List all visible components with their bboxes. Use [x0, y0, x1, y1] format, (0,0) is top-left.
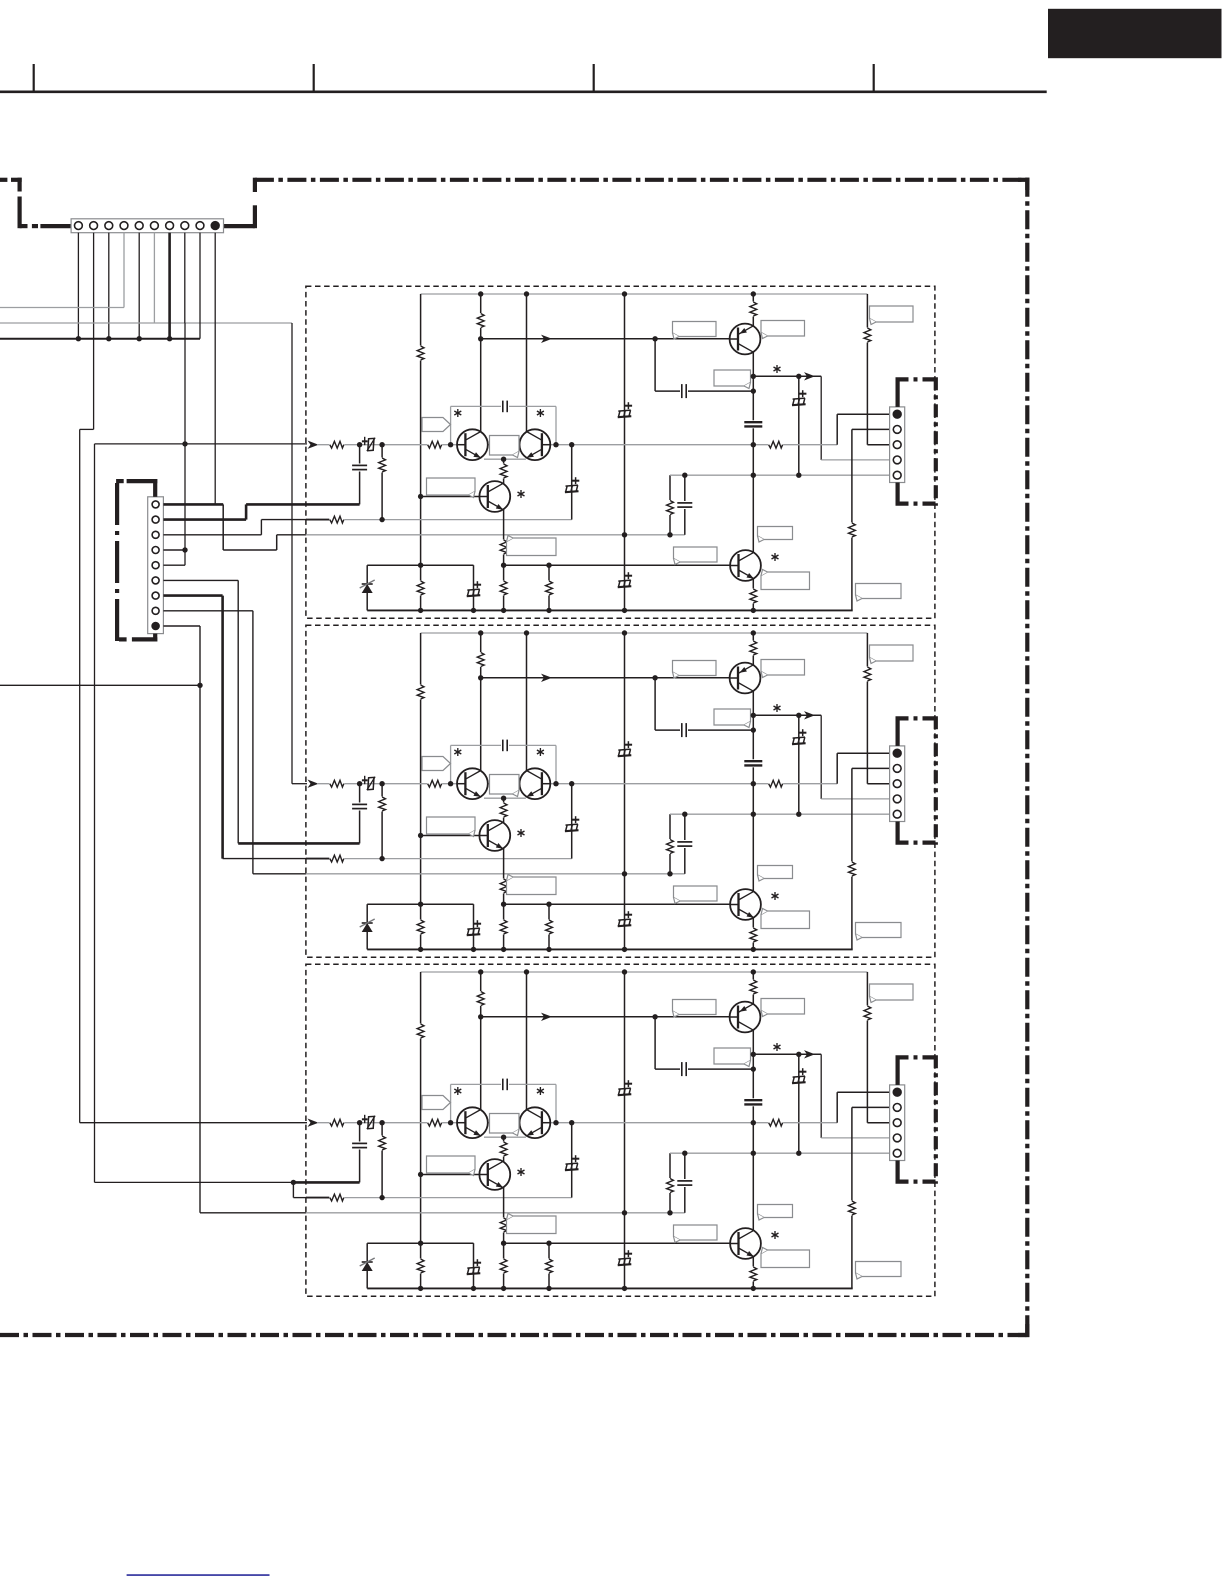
pin 10 CN-in	[211, 222, 219, 230]
pin 2 CN-L	[152, 516, 159, 523]
resistor R4A	[749, 302, 758, 317]
resistor R10B	[329, 854, 344, 863]
transistor Q5A	[730, 324, 761, 355]
connector CN-outC body	[890, 1085, 905, 1161]
wire channel C input	[80, 1122, 307, 1124]
wire bias line C	[481, 1016, 732, 1018]
pin 9 CN-in	[196, 222, 204, 230]
resistor R2A	[416, 581, 425, 596]
transistor Q3B	[479, 820, 510, 851]
pin 3 CN-outA	[893, 441, 901, 449]
border left jog	[18, 178, 22, 192]
resistor R5C	[863, 1006, 872, 1021]
pin 3 CN-L	[152, 531, 159, 538]
wire Q3 emitter C	[503, 1182, 505, 1243]
pin 1 CN-outB	[893, 749, 901, 757]
pin 7 CN-L	[152, 592, 159, 599]
resistor R16C	[749, 1267, 758, 1282]
tick 4	[873, 64, 875, 92]
wire pin2 link B	[851, 768, 853, 949]
asterisk pair left B	[457, 748, 459, 756]
resistor R17B	[847, 862, 856, 877]
pin 1 CN-L	[152, 501, 159, 508]
wire emitter bracket B	[484, 797, 526, 799]
pin 1 CN-in	[75, 222, 83, 230]
trimmer TC3A	[792, 404, 806, 405]
wire zener rail B	[367, 903, 473, 905]
wire base branch B	[654, 678, 656, 730]
asterisk pair right A	[539, 409, 541, 417]
resistor R14B	[499, 920, 508, 935]
resistor R6B	[329, 779, 344, 788]
wire channel B input	[292, 783, 307, 785]
label box L4A	[714, 370, 751, 386]
wire Q1B collector	[480, 633, 482, 772]
wire row2 stub C	[306, 1197, 330, 1199]
resistor R15A	[548, 565, 550, 610]
wire channel B feed	[291, 323, 293, 784]
resistor R16B	[749, 928, 758, 943]
transistor Q2C	[520, 1107, 551, 1138]
resistor R6C	[329, 1118, 344, 1127]
resistor R14C	[499, 1259, 508, 1274]
resistor R7C	[427, 1118, 442, 1127]
wire row2 riser A	[571, 445, 573, 520]
capacitor C5B	[501, 739, 509, 752]
wire Q4 emitter B	[752, 917, 754, 949]
label box L10C	[674, 1225, 718, 1240]
wire trimmer branch A	[798, 376, 800, 475]
wire main row B	[317, 783, 837, 785]
wire main row C	[317, 1122, 837, 1124]
label box L12C	[856, 1262, 902, 1277]
wire Q3 collector A	[503, 459, 505, 489]
transistor Q5C	[730, 1002, 761, 1033]
label box L10A	[674, 547, 718, 562]
trimmer TC1A	[618, 416, 632, 417]
pin 6 CN-L	[152, 577, 159, 584]
pin 2 CN-outC	[893, 1104, 901, 1112]
wire CN-L pin5	[163, 564, 185, 566]
wire aux bus	[0, 684, 200, 686]
capacitor C3B	[352, 803, 368, 811]
wire input res branch C	[381, 1123, 383, 1198]
wire row2 A feed	[261, 519, 307, 521]
wire pin4 link C	[820, 1054, 822, 1138]
label box L9C	[758, 1205, 793, 1218]
wire emitter bracket A	[484, 458, 526, 460]
wire pin1 link C	[836, 1092, 838, 1123]
pin 5 CN-outA	[893, 471, 901, 479]
label box L4B	[714, 709, 751, 725]
resistor R3B	[476, 652, 485, 667]
wire Q3 collector C	[503, 1137, 505, 1167]
wire center vertical A	[624, 294, 626, 610]
label box L1C	[673, 1000, 717, 1015]
resistor R8C	[768, 1118, 783, 1127]
zener D1B	[366, 904, 368, 949]
border right	[1025, 178, 1029, 1335]
resistor R12C	[499, 1142, 508, 1157]
wire top rail C	[421, 971, 868, 973]
resistor R17C	[847, 1201, 856, 1216]
wire driver vertical B	[752, 633, 754, 892]
wire row2 riser C	[571, 1123, 573, 1198]
arrow bias C	[541, 1013, 552, 1021]
wire bus 323	[0, 322, 292, 324]
resistor R13B	[499, 879, 508, 894]
trimmer TC4B	[368, 777, 374, 789]
wire CN-in pin5	[138, 233, 140, 339]
resistor R17A	[847, 523, 856, 538]
wire CN-in pin2	[93, 233, 95, 430]
trimmer TC6A	[473, 565, 475, 610]
wire row2 B feed	[223, 858, 307, 860]
wire pin5 row A	[670, 474, 893, 476]
label box L2A	[761, 321, 805, 337]
wire Q1C collector	[480, 972, 482, 1111]
wire row2 B	[330, 858, 572, 860]
label box L9B	[758, 866, 793, 879]
wire pair bracket B	[450, 745, 452, 783]
label box L11B	[761, 911, 810, 929]
resistor R9C	[378, 1136, 387, 1151]
wire channel A input	[95, 443, 308, 445]
capacitor C2A	[744, 420, 763, 428]
tick 3	[593, 64, 595, 92]
pin 2 CN-outA	[893, 426, 901, 434]
channel B dashed outline	[306, 625, 935, 957]
pin 3 CN-outC	[893, 1119, 901, 1127]
wire row3 B	[306, 873, 685, 875]
wire bias line B	[481, 677, 732, 679]
wire emitter bracket C	[484, 1136, 526, 1138]
bracket CN-outC	[895, 1057, 899, 1085]
label box L2C	[761, 999, 805, 1015]
wire vas out B	[753, 714, 821, 716]
pin 2 CN-outB	[893, 765, 901, 773]
asterisk Q3 A	[520, 490, 522, 498]
arrow input A	[308, 441, 319, 449]
capacitor C1C	[680, 1062, 688, 1077]
capacitor C2C	[744, 1098, 763, 1106]
arrow vas C	[804, 1050, 815, 1058]
wire input res branch A	[381, 445, 383, 520]
border CN-in right	[224, 224, 255, 228]
wire CN-in pin1	[77, 233, 79, 339]
label box L7A	[427, 478, 476, 495]
resistor R8B	[768, 779, 783, 788]
wire pin2 link C	[851, 1107, 853, 1288]
arrow vas A	[804, 372, 815, 380]
trimmer TC4C	[368, 1116, 374, 1128]
border jog to CN-in	[20, 224, 28, 228]
wire left vertical B	[420, 633, 422, 949]
wire input res branch B	[381, 784, 383, 859]
wire pin1 link A	[836, 414, 838, 445]
wire zener rail A	[367, 564, 473, 566]
resistor R5A	[863, 328, 872, 343]
label box L6C	[490, 1114, 520, 1134]
wire Q3 emitter A	[503, 504, 505, 565]
connector CN-outA body	[890, 407, 905, 483]
asterisk vas B	[776, 704, 778, 712]
resistor R1B	[416, 685, 425, 700]
wire cap B feed	[238, 842, 359, 845]
asterisk Q4 A	[774, 553, 776, 561]
pin 5 CN-outC	[893, 1149, 901, 1157]
resistor R3A	[476, 313, 485, 328]
label box L11A	[761, 572, 810, 590]
junctions channel B	[478, 630, 483, 635]
bracket CN-outA	[895, 379, 899, 407]
resistor R2C	[416, 1259, 425, 1274]
wire bottom rail B	[367, 948, 853, 950]
wire vas out C	[753, 1053, 821, 1055]
blue underline	[127, 1574, 270, 1576]
wire Q3 emitter gnd B	[503, 904, 505, 949]
transistor Q2B	[520, 768, 551, 799]
zener D1C	[366, 1243, 368, 1288]
wire Q3 base B	[421, 835, 481, 837]
wire row2 C	[330, 1197, 572, 1199]
pin 8 CN-L	[152, 607, 159, 614]
label box L8C	[507, 1216, 557, 1234]
capacitor C4C	[684, 1153, 686, 1213]
wire input cap branch B	[359, 784, 361, 844]
wire ground bus	[0, 338, 200, 340]
wire CN-L pin2	[163, 518, 246, 521]
capacitor C2B	[744, 759, 763, 767]
wire CN-L pin7	[163, 594, 222, 597]
resistor R4B	[749, 641, 758, 656]
junction pin4 tap	[182, 547, 187, 552]
wire main row A	[317, 444, 837, 446]
wire Q1A collector	[480, 294, 482, 433]
wire q4 base rail C	[504, 1242, 731, 1244]
wire row2 riser B	[571, 784, 573, 859]
capacitor C3C	[352, 1142, 368, 1150]
label box L11C	[761, 1250, 810, 1268]
asterisk Q4 C	[774, 1231, 776, 1239]
wire bottom rail C	[367, 1287, 853, 1289]
channel C dashed outline	[306, 964, 935, 1296]
border right jog	[253, 178, 257, 192]
transistor Q2A	[520, 429, 551, 460]
wire left vertical A	[420, 294, 422, 610]
asterisk Q4 B	[774, 892, 776, 900]
pin 5 CN-L	[152, 562, 159, 569]
resistor R12B	[499, 803, 508, 818]
wire pin5 row B	[670, 813, 893, 815]
wire row2 stub B	[306, 858, 330, 860]
capacitor C4B	[684, 814, 686, 874]
label box L8A	[507, 538, 557, 556]
pin 4 CN-outB	[893, 795, 901, 803]
label box L12B	[856, 923, 902, 938]
pin 2 CN-in	[90, 222, 98, 230]
wire row3 C feed	[200, 1212, 307, 1214]
trimmer TC5B	[565, 830, 579, 831]
capacitor C5C	[501, 1078, 509, 1091]
pin 3 CN-in	[105, 222, 113, 230]
label box L4C	[714, 1048, 751, 1064]
wire q4 base rail A	[504, 564, 731, 566]
wire center vertical B	[624, 633, 626, 949]
resistor R16A	[749, 589, 758, 604]
transistor Q1B	[457, 768, 488, 799]
transistor Q5B	[730, 663, 761, 694]
connector CN-L body	[148, 497, 164, 634]
resistor R10C	[329, 1193, 344, 1202]
pin 6 CN-in	[151, 222, 159, 230]
wire row3 C	[306, 1212, 685, 1214]
wire Q2B collector	[526, 633, 528, 772]
capacitor C3A	[352, 464, 368, 472]
resistor R13C	[499, 1218, 508, 1233]
wire input cap branch A	[359, 445, 361, 505]
resistor R11B	[669, 814, 671, 874]
transistor Q3C	[479, 1159, 510, 1190]
wire CN-L pin1	[163, 503, 223, 506]
resistor R8A	[768, 440, 783, 449]
wire center vertical C	[624, 972, 626, 1288]
transistor Q1C	[457, 1107, 488, 1138]
wire pin2 link A	[851, 429, 853, 610]
wire Q3 base C	[421, 1174, 481, 1176]
pin 9 CN-L	[152, 623, 159, 630]
wire Q2C collector	[526, 972, 528, 1111]
tick 2	[313, 64, 315, 92]
junctions channel C	[478, 969, 483, 974]
junction A input	[182, 441, 187, 446]
wire CN-L pin8	[163, 610, 253, 612]
wire bottom rail A	[367, 609, 853, 611]
wire bias line A	[481, 338, 732, 340]
resistor R7A	[427, 440, 442, 449]
connector CN-in body	[71, 219, 223, 233]
pin 3 CN-outB	[893, 780, 901, 788]
asterisk Q3 C	[520, 1168, 522, 1176]
wire driver vertical A	[752, 294, 754, 553]
resistor R11C	[669, 1153, 671, 1213]
wire zener rail C	[367, 1242, 473, 1244]
label box L7B	[427, 817, 476, 834]
resistor R15C	[548, 1243, 550, 1288]
pin 4 CN-L	[152, 547, 159, 554]
wire row3 B feed	[253, 873, 307, 875]
resistor R10A	[329, 515, 344, 524]
trimmer TC5A	[565, 491, 579, 492]
resistor R14A	[499, 581, 508, 596]
resistor R9A	[378, 458, 387, 473]
wire CN-in pin7	[168, 233, 171, 339]
junction C cap	[291, 1180, 296, 1185]
wire Q3 emitter gnd A	[503, 565, 505, 610]
resistor R1C	[416, 1024, 425, 1039]
wire row3 A	[306, 534, 685, 536]
wire Q4 emitter A	[752, 578, 754, 610]
resistor R1A	[416, 346, 425, 361]
border corner caps	[1018, 178, 1029, 182]
junction aux bus	[197, 683, 202, 688]
arrow bias B	[541, 674, 552, 682]
wire CN-L pin3	[163, 534, 261, 536]
wire CN-in pin4	[123, 233, 125, 308]
label box L6B	[490, 775, 520, 795]
pin 5 CN-in	[135, 222, 143, 230]
transistor Q4B	[730, 889, 761, 920]
resistor R5B	[863, 667, 872, 682]
wire top rail A	[421, 293, 868, 295]
label box L2B	[761, 660, 805, 676]
pin 7 CN-in	[166, 222, 174, 230]
resistor R3C	[476, 991, 485, 1006]
resistor R15B	[548, 904, 550, 949]
asterisk vas C	[776, 1043, 778, 1051]
wire trimmer branch B	[798, 715, 800, 814]
wire base branch A	[654, 339, 656, 391]
capacitor C1A	[680, 384, 688, 399]
label box L1B	[673, 661, 717, 676]
wire Q2A collector	[526, 294, 528, 433]
pin 8 CN-in	[181, 222, 189, 230]
junctions channel A	[478, 291, 483, 296]
asterisk vas A	[776, 365, 778, 373]
pin 4 CN-outA	[893, 456, 901, 464]
label box L12A	[856, 584, 902, 599]
resistor R12A	[499, 464, 508, 479]
asterisk pair right C	[539, 1087, 541, 1095]
trimmer TC3C	[792, 1082, 806, 1083]
wire pin4 link B	[820, 715, 822, 799]
trimmer TC6C	[473, 1243, 475, 1288]
trimmer TC2B	[618, 925, 632, 926]
asterisk pair left A	[457, 409, 459, 417]
channel A dashed outline	[306, 286, 935, 618]
black title block	[1048, 9, 1222, 58]
pin 5 CN-outB	[893, 810, 901, 818]
trimmer TC1C	[618, 1094, 632, 1095]
resistor R13A	[499, 540, 508, 555]
wire row2 A	[330, 519, 572, 521]
resistor R6A	[329, 440, 344, 449]
trimmer TC2A	[618, 586, 632, 587]
wire CN-in pin9	[199, 233, 201, 339]
trimmer TC3B	[792, 743, 806, 744]
wire left vertical C	[420, 972, 422, 1288]
resistor R2B	[416, 920, 425, 935]
label box L1A	[673, 322, 717, 337]
wire pin3 feed A	[866, 294, 868, 445]
connector CN-outB body	[890, 746, 905, 822]
wire Q3 base A	[421, 496, 481, 498]
arrow bias A	[541, 335, 552, 343]
capacitor C5A	[501, 400, 509, 413]
transistor Q4C	[730, 1228, 761, 1259]
wire base branch C	[654, 1017, 656, 1069]
wire pin3 feed B	[866, 633, 868, 784]
wire Q3 emitter B	[503, 843, 505, 904]
trimmer TC4A	[368, 438, 374, 450]
wire pin1 link B	[836, 753, 838, 784]
arrow input C	[308, 1119, 319, 1127]
flag F1C	[422, 1096, 451, 1110]
bracket CN-L	[115, 483, 119, 642]
pin 1 CN-outA	[893, 410, 901, 418]
label box L3B	[870, 645, 914, 661]
label box L10B	[674, 886, 718, 901]
